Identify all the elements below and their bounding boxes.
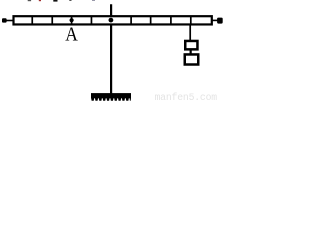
ground bar <box>91 93 131 98</box>
ruler division 4 <box>90 16 92 25</box>
ruler division 3 (at point A) <box>71 16 73 25</box>
weight W2 <box>185 54 199 64</box>
ground hatch teeth <box>91 98 131 101</box>
right end stem <box>213 19 218 21</box>
top edge speck 2 <box>39 0 41 1</box>
string to weights <box>189 25 191 41</box>
ruler division 5 <box>130 16 132 25</box>
weight W1 <box>185 41 197 49</box>
ruler division 1 <box>31 16 33 25</box>
top edge speck 3 <box>53 0 57 2</box>
top edge speck 1 <box>28 0 31 1</box>
top edge speck 5 <box>92 0 95 1</box>
svg-text:A: A <box>65 24 78 46</box>
right end knob <box>217 18 223 24</box>
left end stem <box>6 20 13 22</box>
point A dot <box>70 18 74 22</box>
hook stub between weights <box>190 50 192 55</box>
support post (fulcrum stand) <box>110 4 112 93</box>
left end knob <box>2 18 7 22</box>
pivot dot on beam <box>109 18 114 23</box>
top edge speck 4 <box>69 0 71 1</box>
ruler division 6 <box>150 16 152 25</box>
ruler division 8 (hanger point) <box>190 16 192 25</box>
ruler division 2 <box>51 16 53 25</box>
lever beam (ruler body) <box>14 16 212 24</box>
svg-text:manfen5.com: manfen5.com <box>155 92 218 101</box>
ruler division 7 <box>170 16 172 25</box>
